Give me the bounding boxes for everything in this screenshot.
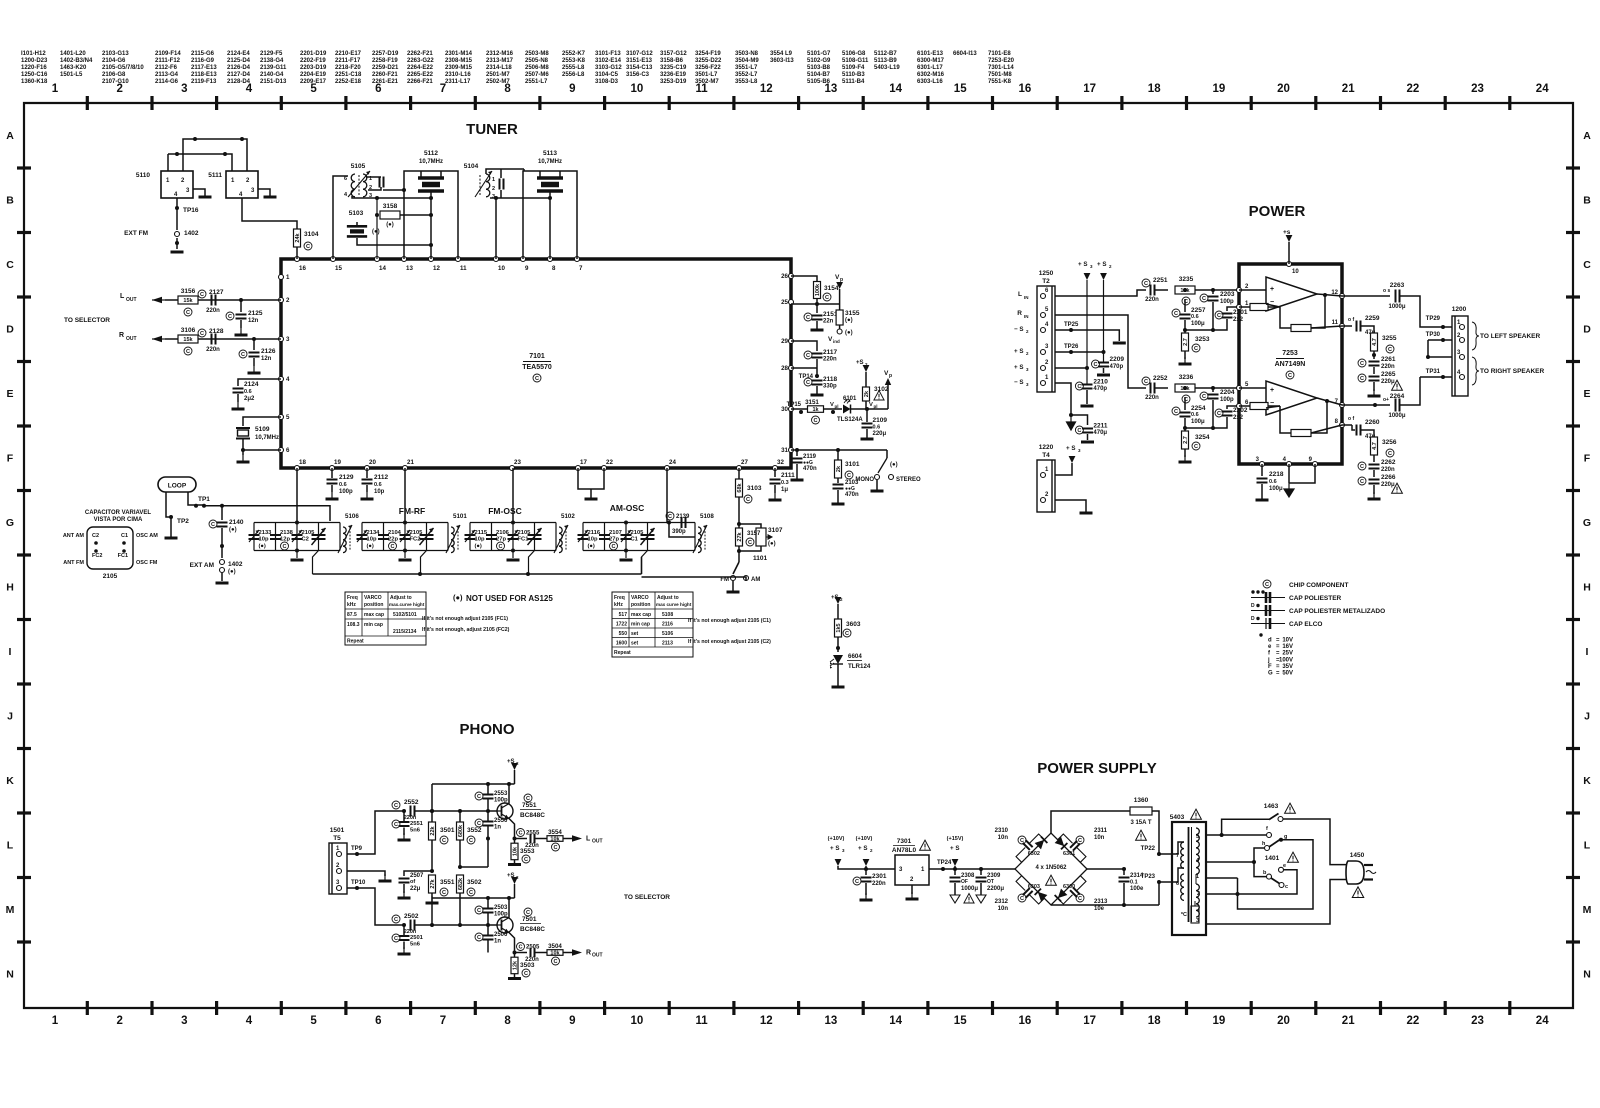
svg-text:2555: 2555	[526, 831, 540, 837]
svg-text:TP29: TP29	[1426, 316, 1441, 322]
svg-text:FC2: FC2	[410, 537, 421, 543]
svg-text:3157: 3157	[747, 531, 761, 537]
wire	[837, 450, 839, 460]
svg-text:5102-G9: 5102-G9	[807, 58, 831, 64]
pin 15 top	[331, 257, 336, 262]
svg-text:1k5: 1k5	[836, 623, 842, 632]
svg-text:1n: 1n	[494, 825, 501, 831]
chip mark 3103	[744, 495, 752, 503]
capacitor 2501	[399, 936, 410, 940]
svg-text:4.7: 4.7	[1372, 338, 1378, 346]
capacitor 2555	[531, 834, 535, 843]
svg-text:220n: 220n	[1381, 364, 1395, 370]
svg-text:1000μ: 1000μ	[1388, 304, 1405, 310]
wire	[1239, 289, 1266, 291]
svg-text:F: F	[1268, 664, 1272, 670]
wire	[1317, 398, 1342, 405]
svg-text:3: 3	[181, 1015, 187, 1027]
junction	[1220, 833, 1224, 837]
svg-text:3256: 3256	[1382, 439, 1397, 446]
svg-text:min cap: min cap	[631, 622, 650, 628]
svg-text:11: 11	[696, 1015, 709, 1027]
wire	[1288, 242, 1290, 264]
svg-text:2: 2	[1197, 891, 1200, 897]
svg-text:max.curve hight: max.curve hight	[389, 602, 425, 607]
chip mark 3156	[184, 308, 192, 316]
svg-text:2313: 2313	[1094, 899, 1108, 905]
pin 31 right	[789, 448, 794, 453]
wire	[188, 492, 204, 505]
wire	[1184, 418, 1186, 432]
svg-text:C1: C1	[631, 537, 639, 543]
svg-text:If it's not enough, adjust 210: If it's not enough, adjust 2105 (FC2)	[422, 627, 510, 633]
svg-text:470n: 470n	[845, 492, 859, 498]
terminal EXT FM	[175, 232, 180, 237]
wire	[796, 477, 798, 480]
svg-text:2115: 2115	[475, 530, 488, 536]
wire	[816, 321, 818, 328]
svg-text:22n: 22n	[823, 319, 834, 325]
junction	[1183, 386, 1187, 390]
pin 27 bottom	[737, 466, 742, 471]
svg-text:5109: 5109	[255, 426, 270, 433]
wire	[1373, 351, 1375, 359]
TP30 dot	[1441, 338, 1445, 342]
chip mark 2254	[1172, 407, 1180, 415]
svg-text:5103-B8: 5103-B8	[807, 65, 831, 71]
coil arrow	[693, 525, 707, 553]
pin 26 right	[789, 274, 794, 279]
resistor 3552	[457, 822, 464, 840]
ground arrow 2308	[950, 895, 960, 903]
supply arrow +S2	[1100, 273, 1107, 280]
svg-text:3502-M7: 3502-M7	[695, 79, 719, 85]
svg-text:7253-E20: 7253-E20	[988, 58, 1015, 64]
ground 2103	[832, 503, 845, 506]
junction	[486, 837, 490, 841]
wire	[732, 589, 734, 592]
svg-text:2107-G10: 2107-G10	[102, 79, 129, 85]
wire	[1373, 470, 1375, 477]
svg-text:C: C	[611, 544, 615, 550]
svg-text:− S: − S	[1014, 326, 1023, 333]
chip mark 2257	[1172, 309, 1180, 317]
chip mark 2262	[1358, 462, 1366, 470]
svg-text:2k: 2k	[864, 390, 870, 397]
chip mark 2201	[1215, 311, 1223, 319]
svg-text:C: C	[1093, 362, 1097, 368]
svg-text:LOOP: LOOP	[168, 483, 187, 490]
ground 2507	[398, 891, 411, 898]
chip mark 3151	[812, 416, 820, 424]
junction	[979, 867, 983, 871]
chip mark 2556	[475, 819, 483, 827]
svg-text:2200μ: 2200μ	[987, 886, 1004, 892]
junction	[486, 809, 490, 813]
wire	[459, 811, 461, 822]
ground 6604	[832, 686, 845, 689]
wire	[612, 618, 693, 620]
svg-text:OT: OT	[987, 879, 994, 885]
wire	[296, 468, 298, 523]
svg-text:24: 24	[1536, 1015, 1549, 1027]
potentiometer 3107	[756, 528, 766, 546]
wire	[1261, 497, 1263, 500]
wire	[204, 506, 330, 521]
svg-text:220n: 220n	[1381, 467, 1395, 473]
svg-text:3255: 3255	[1382, 335, 1397, 342]
svg-text:100p: 100p	[1220, 397, 1234, 403]
svg-text:1450: 1450	[1350, 852, 1365, 859]
warning 7301	[920, 840, 931, 850]
svg-text:14: 14	[889, 1015, 902, 1027]
svg-text:2218-F20: 2218-F20	[335, 65, 361, 71]
junction	[375, 196, 379, 200]
ground 2124	[232, 402, 245, 409]
svg-text:TEA5570: TEA5570	[522, 364, 552, 371]
svg-text:100p: 100p	[1220, 299, 1234, 305]
svg-text:G: G	[6, 517, 14, 529]
svg-text:32: 32	[777, 459, 784, 466]
wire	[539, 171, 541, 178]
capacitor 2112	[362, 480, 373, 484]
wire	[583, 550, 695, 552]
svg-text:12: 12	[760, 1015, 773, 1027]
connector 1250 pin 2	[1041, 366, 1046, 371]
pin 20 bottom	[365, 466, 370, 471]
wire	[1239, 387, 1266, 389]
svg-text:F: F	[7, 453, 14, 465]
wire	[1238, 840, 1314, 909]
svg-text:9: 9	[569, 1015, 575, 1027]
pin 17 bottom	[576, 466, 581, 471]
svg-text:2261-E21: 2261-E21	[372, 79, 399, 85]
junction	[1211, 288, 1215, 292]
capacitor 2262	[1369, 465, 1380, 469]
wire	[1086, 390, 1088, 404]
svg-text:2553: 2553	[494, 791, 508, 797]
svg-text:J: J	[7, 711, 13, 723]
warning 5403	[1191, 809, 1202, 819]
wire	[1436, 326, 1452, 328]
pin 14 top	[375, 257, 380, 262]
wire	[347, 871, 385, 876]
svg-text:5403-L19: 5403-L19	[874, 65, 900, 71]
svg-text:10p: 10p	[475, 537, 485, 543]
wire	[508, 898, 510, 918]
supply arrow +S2 led	[835, 597, 842, 604]
wire	[1103, 368, 1105, 373]
svg-text:C: C	[1194, 444, 1198, 450]
wire	[331, 468, 333, 478]
svg-text:C: C	[1077, 384, 1081, 390]
svg-text:14: 14	[889, 83, 902, 95]
svg-text:C: C	[1217, 313, 1221, 319]
chip mark 2107	[610, 542, 618, 550]
svg-text:d: d	[1268, 638, 1272, 644]
wire	[347, 811, 404, 854]
warning 2308	[964, 893, 974, 903]
svg-text:+S: +S	[856, 360, 864, 366]
svg-text:0.1: 0.1	[1130, 880, 1138, 886]
svg-text:C: C	[526, 796, 530, 802]
svg-text:5101: 5101	[453, 513, 467, 520]
chip mark 2313	[1076, 894, 1084, 902]
wire	[258, 189, 270, 196]
svg-text:C: C	[1360, 376, 1364, 382]
svg-text:19: 19	[1213, 1015, 1226, 1027]
resistor 3256	[1371, 437, 1378, 455]
wire	[816, 299, 818, 304]
wire	[837, 501, 839, 504]
wire	[240, 320, 242, 328]
resistor 3503	[511, 957, 518, 974]
wire	[534, 523, 536, 551]
ground 2118	[811, 394, 824, 397]
svg-text:27k: 27k	[737, 531, 743, 541]
coil 5105 secondary	[363, 174, 367, 197]
resistor 3502	[457, 875, 464, 893]
svg-text:TP16: TP16	[183, 207, 199, 214]
supply arrow PS +S	[952, 859, 959, 866]
wire	[578, 468, 604, 489]
svg-text:4: 4	[246, 1015, 253, 1027]
svg-text:C: C	[282, 544, 286, 550]
svg-text:C: C	[1078, 838, 1082, 844]
svg-text:26: 26	[781, 273, 788, 280]
svg-text:=: =	[1276, 651, 1280, 657]
ground EXT FM	[171, 251, 184, 254]
junction	[836, 646, 840, 650]
wire	[1311, 326, 1342, 328]
svg-text:TP25: TP25	[1064, 322, 1079, 328]
junction	[1373, 403, 1377, 407]
svg-text:3553: 3553	[520, 848, 535, 855]
wire	[431, 898, 433, 925]
pin 9	[1313, 462, 1318, 467]
chip mark 2210	[1075, 382, 1083, 390]
junction	[1085, 366, 1089, 370]
wire	[221, 573, 223, 581]
wire	[487, 799, 489, 812]
svg-text:7253: 7253	[1282, 350, 1298, 357]
svg-text:3603: 3603	[846, 621, 861, 628]
svg-text:7301-L14: 7301-L14	[988, 65, 1014, 71]
ceramic filter 5113	[537, 178, 563, 191]
junction	[624, 521, 628, 525]
svg-text:2117: 2117	[823, 349, 837, 356]
wire	[549, 191, 551, 259]
svg-text:+: +	[1270, 286, 1274, 293]
svg-text:100k: 100k	[815, 283, 821, 296]
svg-text:1250-C16: 1250-C16	[21, 72, 48, 78]
svg-text:2259-D21: 2259-D21	[372, 65, 399, 71]
svg-text:OUT: OUT	[126, 336, 137, 342]
svg-text:o f: o f	[1348, 317, 1354, 323]
IC 7253 fraction line	[1276, 358, 1304, 360]
capacitor 2552	[411, 806, 415, 817]
pin 10 top	[494, 257, 499, 262]
svg-text:VISTA POR CIMA: VISTA POR CIMA	[94, 517, 143, 523]
wire	[403, 828, 405, 836]
svg-text:1200-D23: 1200-D23	[21, 58, 48, 64]
chip mark 2126	[239, 350, 247, 358]
svg-text:682k: 682k	[458, 877, 464, 890]
wire	[1087, 868, 1124, 870]
wire	[816, 304, 818, 313]
svg-text:5403: 5403	[1170, 814, 1185, 821]
ground 5110 pin3	[199, 196, 212, 199]
junction	[494, 196, 498, 200]
chip mark 2117	[804, 351, 812, 359]
svg-text:Repeat: Repeat	[614, 650, 631, 656]
capacitor 2311 snubber	[1058, 830, 1090, 862]
svg-text:1101: 1101	[753, 555, 767, 562]
svg-text:C: C	[1360, 479, 1364, 485]
svg-text:CHIP COMPONENT: CHIP COMPONENT	[1289, 582, 1348, 589]
wire	[612, 627, 693, 629]
svg-text:C: C	[524, 971, 528, 977]
capacitor 2503	[483, 909, 494, 913]
svg-text:15: 15	[954, 1015, 967, 1027]
wire	[791, 449, 887, 451]
svg-text:CAP ELCO: CAP ELCO	[1289, 621, 1322, 628]
junction	[252, 337, 256, 341]
svg-text:H: H	[6, 582, 14, 594]
wire	[168, 154, 232, 171]
svg-text:2257-D19: 2257-D19	[372, 51, 399, 57]
svg-text:2139-G11: 2139-G11	[260, 65, 287, 71]
svg-text:C: C	[394, 803, 398, 809]
svg-text:=: =	[1276, 664, 1280, 670]
wire	[275, 523, 277, 551]
svg-text:12: 12	[433, 265, 440, 272]
junction	[418, 572, 422, 576]
wire	[738, 468, 740, 479]
wire	[487, 811, 489, 821]
svg-text:TP26: TP26	[1064, 344, 1079, 350]
coil arrow	[338, 525, 352, 553]
svg-text:p: p	[889, 373, 892, 379]
svg-text:7551: 7551	[522, 802, 537, 809]
svg-text:12n: 12n	[261, 356, 272, 362]
svg-text:AN78L0: AN78L0	[892, 847, 917, 854]
wire	[383, 523, 385, 551]
pin 25 right	[789, 300, 794, 305]
wire	[339, 523, 341, 551]
wire	[469, 523, 471, 551]
TP29 dot	[1441, 325, 1445, 329]
svg-text:C: C	[1388, 347, 1392, 353]
pin 18 bottom	[295, 466, 300, 471]
pin 29 right	[789, 339, 794, 344]
svg-text:23: 23	[514, 459, 521, 466]
wire	[1373, 455, 1375, 462]
svg-text:K: K	[6, 775, 14, 787]
wire	[1311, 425, 1342, 433]
ground 2129	[326, 492, 339, 499]
junction	[175, 152, 179, 156]
junction	[193, 137, 197, 141]
wire	[774, 468, 776, 477]
resistor 3551	[429, 875, 436, 893]
svg-text:470μ: 470μ	[1093, 430, 1107, 436]
svg-text:2556-L8: 2556-L8	[562, 72, 585, 78]
svg-text:1: 1	[286, 274, 290, 281]
svg-text:C: C	[394, 936, 398, 942]
svg-text:2109: 2109	[873, 417, 888, 424]
svg-text:1220-F16: 1220-F16	[21, 65, 47, 71]
pin 32 bottom	[773, 466, 778, 471]
capacitor 2139	[682, 517, 686, 528]
svg-text:M: M	[6, 904, 15, 916]
svg-text:1401-L20: 1401-L20	[60, 51, 86, 57]
warning 2265	[1392, 380, 1403, 390]
svg-text:max cap: max cap	[631, 612, 651, 618]
svg-text:2139: 2139	[676, 514, 690, 520]
wire	[165, 492, 167, 512]
svg-text:3106: 3106	[181, 327, 196, 334]
wire	[866, 437, 868, 439]
svg-text:VARCO: VARCO	[364, 595, 382, 601]
junction	[526, 572, 530, 576]
svg-text:Repeat: Repeat	[347, 639, 364, 645]
ground 2111	[769, 493, 782, 500]
svg-text:2116: 2116	[662, 622, 673, 628]
svg-text:3553-L8: 3553-L8	[735, 79, 758, 85]
svg-text:AN7149N: AN7149N	[1275, 361, 1306, 368]
svg-text:1360: 1360	[1134, 797, 1149, 804]
svg-text:C: C	[1077, 428, 1081, 434]
wire	[345, 608, 426, 610]
svg-text:3554: 3554	[548, 829, 562, 836]
wire	[403, 884, 405, 893]
junction	[375, 213, 379, 217]
svg-text:(●): (●)	[367, 544, 374, 550]
junction	[513, 951, 517, 955]
svg-text:16V: 16V	[1282, 644, 1293, 650]
wire	[837, 664, 839, 684]
resistor 3158	[380, 211, 400, 219]
wire	[352, 196, 431, 198]
svg-text:4: 4	[286, 376, 290, 383]
svg-text:K: K	[1583, 775, 1591, 787]
svg-text:L: L	[586, 836, 591, 843]
svg-text:14: 14	[379, 265, 386, 272]
svg-text:C: C	[1144, 281, 1148, 287]
svg-text:6301: 6301	[1063, 851, 1075, 857]
svg-text:A: A	[6, 130, 14, 142]
wire	[791, 276, 817, 282]
svg-text:3103-G12: 3103-G12	[595, 65, 622, 71]
capacitor 2310 snubber	[1012, 830, 1044, 862]
bridge diamond	[1015, 833, 1087, 905]
svg-text:24k: 24k	[295, 232, 301, 242]
wire	[1311, 295, 1325, 328]
svg-text:5102: 5102	[561, 513, 575, 520]
ground 1501-2	[379, 874, 392, 881]
chip mark 2138	[281, 542, 289, 550]
wire	[667, 468, 669, 523]
wire	[1342, 325, 1352, 327]
svg-text:22: 22	[1407, 1015, 1420, 1027]
coil arrow	[446, 525, 460, 553]
svg-text:2555-L8: 2555-L8	[562, 65, 585, 71]
svg-text:3: 3	[286, 336, 290, 343]
wire	[403, 942, 405, 950]
ground 2210	[1081, 405, 1094, 408]
svg-text:(●): (●)	[453, 593, 463, 602]
